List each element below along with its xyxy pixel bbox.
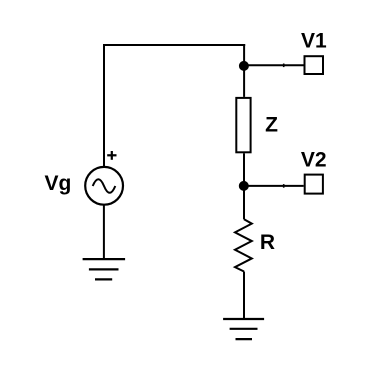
wire: left vertical from top wire down to Vg + terminal — [103, 44, 105, 167]
wire: node A to terminal V1 — [244, 64, 304, 66]
svg-text:V1: V1 — [301, 29, 327, 52]
svg-text:V2: V2 — [301, 148, 327, 171]
svg-text:Z: Z — [265, 114, 278, 137]
ground (below Vg) — [83, 259, 126, 279]
terminal V1 (square pad) — [305, 56, 324, 74]
wire: resistor bottom to ground — [243, 272, 245, 320]
junction nib on V1 wire — [283, 64, 285, 68]
voltage source Vg (AC source symbol) — [85, 167, 123, 205]
svg-text:R: R — [260, 231, 275, 254]
svg-text:Vg: Vg — [45, 172, 72, 195]
impedance Z (box) — [236, 98, 250, 152]
wire: top horizontal from Vg branch to node A — [103, 44, 245, 46]
wire: Vg bottom terminal to ground — [103, 204, 105, 259]
resistor R (zigzag) — [235, 219, 252, 271]
wire: right vertical from top wire through node A to Z top — [243, 44, 245, 97]
terminal V2 (square pad) — [305, 175, 323, 194]
node A junction dot (V1 node) — [239, 61, 249, 71]
wire: node B to terminal V2 — [244, 185, 304, 187]
ground (below R) — [223, 319, 264, 339]
node B junction dot (V2 node) — [239, 181, 249, 191]
wire: Z bottom through node B to resistor top — [243, 153, 245, 219]
plus polarity mark of Vg — [107, 151, 116, 160]
junction nib on V2 wire — [283, 184, 285, 188]
